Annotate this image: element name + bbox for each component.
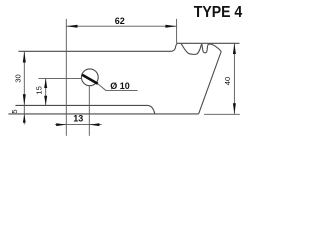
arrow 40 top [233, 43, 236, 54]
dim line 40 [233, 43, 235, 114]
hole circle [81, 69, 98, 86]
dim line 15 [45, 78, 47, 105]
top line of notch region (also extension for dim 40) [177, 42, 240, 44]
svg-text:5: 5 [10, 109, 19, 113]
gullet notch [202, 44, 208, 53]
tooth cutting edge [208, 44, 222, 52]
dim line 13 [55, 124, 101, 126]
arrow 40 bottom [233, 103, 236, 114]
svg-text:Ø 10: Ø 10 [110, 81, 130, 91]
arrow 15 bottom [44, 96, 47, 106]
extension line 15 (to hole centre) [39, 77, 82, 79]
part top edge (with left extension for dim 30) [19, 50, 172, 52]
extension line hole centre down (13 right) [88, 86, 90, 136]
right underside slant edge [199, 52, 222, 114]
extension line 40 bottom [204, 113, 240, 115]
wave 1 chip-breaker curve [181, 43, 202, 54]
arrow 13 left (outside, pointing right) [56, 123, 66, 126]
svg-text:13: 13 [73, 113, 83, 123]
step line with ramp (with left extension) [15, 105, 154, 114]
svg-text:40: 40 [223, 77, 232, 85]
svg-text:15: 15 [35, 86, 44, 94]
svg-text:30: 30 [13, 74, 22, 82]
svg-text:62: 62 [115, 16, 125, 26]
hook at right end of top edge [171, 43, 178, 51]
hole leader line [98, 84, 138, 91]
arrow 5 bottom (outside, pointing up) [23, 114, 26, 123]
extension line 62 right [176, 19, 178, 43]
part bottom edge (with left extension for dim 5) [8, 113, 198, 115]
arrow 62 right [165, 25, 176, 28]
svg-text:TYPE 4: TYPE 4 [194, 3, 243, 21]
arrow 15 top [44, 78, 47, 88]
arrow 13 right (outside, pointing left) [89, 123, 99, 126]
vertical feature / extension line (62 left, 13 left) [65, 19, 67, 136]
arrow 30 bottom / 5 top [23, 94, 26, 105]
dim line 62 [66, 25, 176, 27]
hole slash mark [82, 75, 98, 84]
arrow 30 top [23, 51, 26, 62]
dim line 30 and 5 (shared vertical) [23, 51, 25, 124]
arrow 62 left [66, 25, 77, 28]
